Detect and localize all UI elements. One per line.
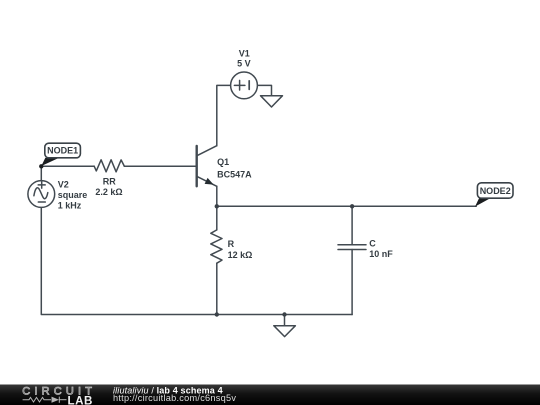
CircuitLab logo schematic squiggle bbox=[23, 397, 67, 403]
transistor Q1 bbox=[197, 146, 217, 187]
CircuitLab logo LAB bbox=[68, 394, 93, 405]
wire bbox=[41, 165, 94, 167]
svg-text:1 kHz: 1 kHz bbox=[58, 200, 82, 210]
label R value bbox=[228, 239, 253, 260]
wire bbox=[216, 186, 218, 206]
wire bbox=[124, 165, 196, 167]
junction bbox=[215, 204, 219, 208]
wire bbox=[351, 206, 353, 244]
wire bbox=[216, 206, 218, 230]
footer url text bbox=[113, 393, 236, 403]
svg-text:BC547A: BC547A bbox=[217, 169, 252, 179]
svg-text:10 nF: 10 nF bbox=[369, 249, 393, 259]
wire bbox=[41, 207, 352, 314]
wire bbox=[351, 250, 353, 315]
wire bbox=[217, 85, 231, 145]
svg-text:RR: RR bbox=[103, 177, 116, 187]
node NODE1 flag bbox=[41, 143, 80, 166]
svg-text:LAB: LAB bbox=[68, 394, 93, 405]
svg-text:V1: V1 bbox=[239, 48, 250, 58]
CircuitLab logo text CIRCUIT bbox=[22, 386, 96, 398]
svg-text:square: square bbox=[58, 190, 88, 200]
wire bbox=[217, 205, 476, 207]
wire bbox=[284, 315, 286, 326]
label V2 value bbox=[58, 180, 88, 211]
wire bbox=[257, 85, 271, 95]
svg-text:V2: V2 bbox=[58, 180, 69, 190]
footer title text bbox=[113, 385, 223, 395]
junction bbox=[282, 312, 286, 316]
label C value bbox=[369, 238, 393, 259]
label Q1 value bbox=[217, 157, 252, 179]
svg-text:NODE2: NODE2 bbox=[480, 186, 511, 196]
svg-text:12 kΩ: 12 kΩ bbox=[228, 250, 253, 260]
voltage source V2 bbox=[28, 181, 55, 208]
footer bar bbox=[0, 385, 540, 405]
junction: node NODE1 point bbox=[39, 164, 43, 168]
resistor RR bbox=[94, 160, 124, 172]
wire bbox=[40, 166, 42, 180]
junction bbox=[215, 312, 219, 316]
voltage source V1 bbox=[231, 72, 258, 99]
wire bbox=[216, 263, 218, 314]
svg-text:5 V: 5 V bbox=[237, 58, 251, 68]
node NODE2 flag bbox=[475, 183, 513, 207]
ground (V1) bbox=[261, 96, 283, 107]
svg-text:C: C bbox=[369, 238, 376, 248]
junction bbox=[350, 204, 354, 208]
label V1 value bbox=[237, 48, 251, 68]
capacitor C bbox=[338, 245, 366, 250]
svg-text:http://circuitlab.com/c6nsq5v: http://circuitlab.com/c6nsq5v bbox=[113, 393, 236, 403]
ground (bottom) bbox=[274, 326, 296, 337]
label RR value bbox=[95, 177, 122, 198]
svg-text:2.2 kΩ: 2.2 kΩ bbox=[95, 187, 122, 197]
svg-text:R: R bbox=[228, 239, 235, 249]
resistor R bbox=[211, 230, 222, 263]
svg-text:NODE1: NODE1 bbox=[47, 146, 78, 156]
svg-text:Q1: Q1 bbox=[217, 157, 229, 167]
